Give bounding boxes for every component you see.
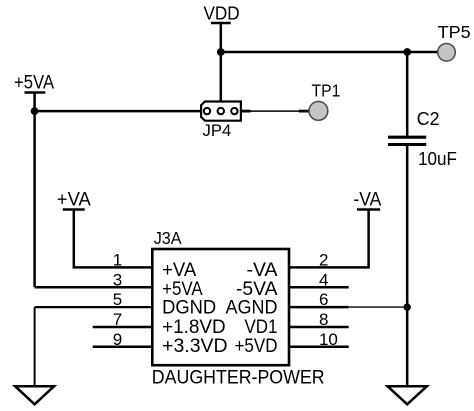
wire pin 3 — [35, 286, 153, 289]
svg-text:3: 3 — [113, 270, 122, 289]
svg-text:1: 1 — [113, 250, 122, 269]
junction VDD node — [217, 48, 225, 56]
svg-text:6: 6 — [319, 290, 328, 309]
power symbol +5VA — [14, 73, 54, 94]
svg-text:9: 9 — [113, 330, 122, 349]
svg-text:TP5: TP5 — [438, 22, 471, 42]
svg-text:DGND: DGND — [162, 298, 216, 319]
svg-text:10: 10 — [319, 330, 338, 349]
wire JP4 to TP1 — [251, 110, 300, 112]
svg-text:-VA: -VA — [353, 190, 381, 211]
wire JP4 pin 3 stub — [241, 110, 251, 113]
svg-text:5: 5 — [113, 290, 122, 309]
svg-text:C2: C2 — [417, 109, 440, 129]
junction +5VA / JP4 — [31, 107, 39, 115]
svg-text:10uF: 10uF — [418, 149, 457, 169]
svg-text:AGND: AGND — [226, 298, 278, 319]
power symbol +VA — [57, 190, 91, 211]
wire -VA to pin 2 — [289, 210, 369, 268]
svg-text:7: 7 — [113, 310, 122, 329]
wire VDD horizontal to TP5 — [221, 51, 438, 54]
svg-text:+1.8VD: +1.8VD — [162, 317, 226, 338]
svg-text:J3A: J3A — [154, 228, 182, 248]
wire pin 5 to ground — [34, 307, 36, 386]
connector JP4 — [201, 102, 241, 140]
svg-text:TP1: TP1 — [312, 80, 341, 100]
wire VDD to C2 top — [406, 52, 409, 136]
junction AGND / C2 — [404, 303, 411, 310]
svg-text:DAUGHTER-POWER: DAUGHTER-POWER — [152, 367, 325, 388]
svg-text:VD1: VD1 — [245, 317, 278, 338]
ground right — [388, 386, 427, 404]
svg-text:8: 8 — [319, 310, 328, 329]
wire C2 bottom to ground — [406, 146, 409, 386]
svg-text:JP4: JP4 — [203, 121, 232, 140]
svg-text:2: 2 — [319, 250, 328, 269]
wire pin 10 stub — [289, 346, 349, 349]
wire pin 6 to C2 net — [349, 306, 408, 308]
wire pin 4 stub — [289, 286, 349, 289]
test point TP5 — [438, 22, 471, 61]
wire TP1 stub — [299, 110, 309, 113]
wire VDD vertical to JP4 — [220, 23, 223, 102]
junction VDD / C2 — [403, 48, 411, 56]
test point TP1 — [309, 80, 340, 120]
power symbol VDD — [204, 4, 240, 24]
ground left — [15, 386, 54, 404]
power symbol -VA — [353, 190, 381, 211]
svg-text:+5VA: +5VA — [14, 73, 54, 94]
wire pin 9 stub — [93, 346, 153, 349]
wire pin 8 stub — [289, 326, 349, 329]
wire +5VA vertical to pin 3 — [33, 93, 36, 288]
capacitor C2 — [388, 109, 457, 169]
wire +5VA to JP4 pin 1 — [35, 110, 202, 113]
svg-text:VDD: VDD — [204, 4, 240, 24]
connector J3A box — [152, 228, 289, 365]
svg-text:+3.3VD: +3.3VD — [162, 336, 228, 357]
svg-text:4: 4 — [319, 270, 328, 289]
svg-text:+5VD: +5VD — [235, 336, 278, 357]
wire pin 7 stub — [93, 326, 153, 329]
wire +VA to pin 1 — [74, 210, 153, 268]
wire pin 6 stub — [289, 306, 349, 309]
svg-text:+VA: +VA — [57, 190, 91, 211]
wire pin 5 — [35, 306, 153, 308]
